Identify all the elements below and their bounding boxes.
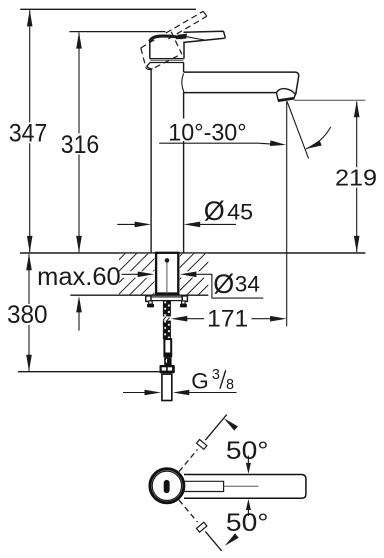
hose braid upper — [163, 301, 171, 317]
mounting plate — [146, 297, 188, 301]
svg-text:380: 380 — [7, 302, 48, 329]
lower angle arrow at bar — [247, 509, 249, 516]
svg-text:max.60: max.60 — [37, 264, 121, 291]
top view pivot pill — [164, 480, 170, 493]
faucet column right edge — [183, 63, 185, 73]
stud left — [149, 301, 153, 304]
dimension G3/8 — [123, 392, 149, 394]
lower swing dashed line — [179, 500, 198, 522]
spout outline — [184, 72, 299, 93]
dimension 171 — [171, 316, 188, 322]
faucet column left edge — [147, 63, 153, 69]
svg-text:219: 219 — [335, 164, 377, 190]
angle arc 10-30 — [306, 127, 331, 149]
lever body — [149, 41, 151, 59]
svg-text:347: 347 — [9, 120, 47, 147]
supply pipe — [162, 374, 172, 400]
dimension 219 ext line — [294, 99, 366, 101]
top view body circle — [150, 469, 184, 503]
svg-text:316: 316 — [61, 132, 99, 159]
lever arm — [184, 31, 226, 42]
label 10-30 halo — [167, 119, 250, 142]
dimension 347 — [29, 10, 31, 252]
upper swing dashed line — [179, 449, 198, 471]
top view center line — [224, 485, 259, 487]
upper angle arrow at bar — [247, 456, 249, 463]
top view lever inner — [184, 481, 224, 491]
dimension 380 — [28, 254, 30, 371]
stream vertical line — [286, 101, 288, 326]
shank through deck — [156, 253, 178, 294]
hose nut — [160, 365, 175, 373]
svg-text:10°-30°: 10°-30° — [168, 119, 246, 146]
svg-text:3: 3 — [212, 367, 220, 383]
aerator — [276, 89, 296, 101]
svg-text:Ø: Ø — [204, 196, 225, 226]
leader 10-30 — [159, 142, 272, 145]
svg-text:Ø: Ø — [213, 269, 234, 299]
shank center line — [166, 263, 168, 294]
label D34 leader — [180, 272, 197, 278]
svg-text:50°: 50° — [226, 510, 269, 537]
svg-text:34: 34 — [235, 272, 260, 297]
svg-text:45: 45 — [227, 199, 253, 224]
max.60 leader mask — [120, 271, 155, 277]
svg-text:G: G — [191, 369, 209, 394]
deck top line — [20, 252, 365, 254]
shank center dot — [165, 258, 170, 263]
dimension max.60 arrows — [76, 296, 82, 313]
top view lever bar — [184, 475, 306, 499]
hose braid lower — [163, 321, 171, 340]
dimension 219 — [356, 102, 358, 253]
hose connector — [164, 357, 171, 365]
deck hatch right — [180, 254, 209, 295]
svg-text:50°: 50° — [226, 438, 269, 465]
hose tube — [164, 339, 171, 353]
cartridge ring — [150, 58, 184, 60]
stream angled line — [287, 102, 309, 159]
spout junction arc — [182, 73, 184, 91]
stud right — [182, 301, 186, 304]
hose break marks — [163, 317, 166, 320]
ref line top 316 — [70, 31, 166, 33]
deck hatch left — [119, 254, 154, 295]
lever dashed rotated outline — [141, 11, 207, 69]
ref line top 347 — [20, 8, 196, 10]
deck bottom line — [70, 294, 208, 296]
svg-text:171: 171 — [207, 305, 248, 332]
dimension 316 — [78, 33, 80, 253]
bottom ref line 380 — [18, 371, 159, 373]
svg-text:8: 8 — [226, 377, 234, 393]
